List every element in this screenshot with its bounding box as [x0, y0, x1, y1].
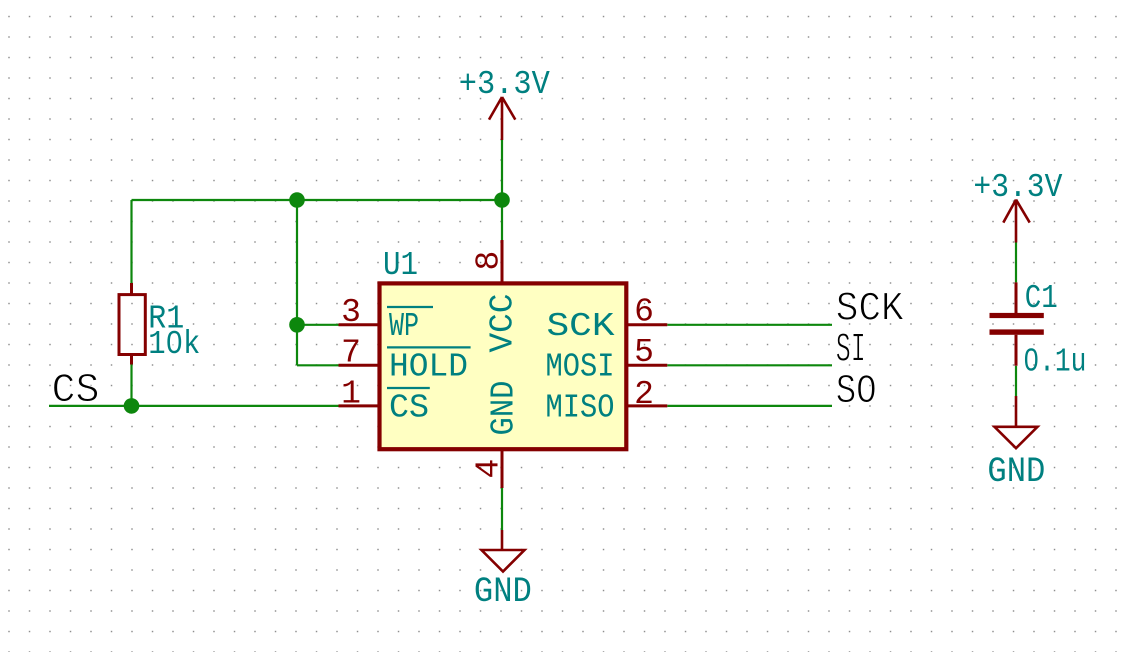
svg-text:0.1u: 0.1u	[1023, 344, 1086, 382]
pin name HOLD with overline	[387, 347, 471, 385]
svg-text:4: 4	[471, 459, 508, 479]
svg-text:SCK: SCK	[547, 308, 615, 345]
wire from resistor R1 bottom to CS net	[130, 365, 132, 406]
svg-text:3: 3	[341, 294, 361, 331]
junction at pin 3 branch	[289, 317, 305, 333]
svg-text:GND: GND	[474, 572, 532, 612]
resistor R1	[119, 283, 145, 365]
svg-text:GND: GND	[987, 452, 1045, 492]
wire vertical from top rail to pin 7 row	[296, 200, 298, 365]
svg-text:SO: SO	[836, 369, 877, 415]
svg-text:MISO: MISO	[546, 390, 615, 427]
svg-text:GND: GND	[486, 381, 523, 436]
svg-text:HOLD: HOLD	[389, 349, 468, 386]
wire from +3.3V to pin 8	[501, 140, 503, 240]
ground (below U1)	[474, 530, 532, 612]
svg-text:CS: CS	[389, 390, 429, 427]
power +3.3V (right, above C1)	[973, 169, 1062, 243]
svg-text:10k: 10k	[148, 326, 200, 364]
wire from capacitor C1 bottom to GND	[1015, 366, 1017, 396]
pin 1 (CS) stub	[339, 404, 380, 407]
IC U1 body	[380, 283, 627, 449]
pin name CS with overline	[387, 388, 430, 427]
svg-text:CS: CS	[52, 368, 100, 414]
pin 3 (WP) stub	[339, 323, 380, 326]
svg-text:MOSI: MOSI	[546, 349, 615, 386]
pin 5 (MOSI) stub	[626, 364, 667, 367]
junction at top rail / R1-pin3 column	[289, 192, 305, 208]
svg-text:8: 8	[471, 251, 508, 271]
pin 4 (GND) stub	[501, 449, 504, 488]
pin 6 (SCK) stub	[626, 323, 667, 326]
wire CS net horizontal to pin 1	[49, 405, 339, 407]
svg-text:+3.3V: +3.3V	[973, 169, 1062, 206]
svg-text:SCK: SCK	[836, 287, 904, 333]
svg-text:7: 7	[341, 334, 361, 371]
svg-text:+3.3V: +3.3V	[459, 66, 550, 103]
svg-text:VCC: VCC	[485, 294, 522, 353]
junction at CS / R1 bottom	[124, 398, 140, 414]
svg-text:SI: SI	[836, 328, 866, 374]
wire from top rail down to resistor R1 top	[130, 200, 132, 283]
wire top horizontal from R1 column to VCC column	[132, 199, 503, 201]
pin name WP with overline	[387, 307, 433, 345]
svg-text:2: 2	[634, 376, 654, 413]
power +3.3V (top)	[459, 66, 550, 140]
svg-text:C1: C1	[1025, 280, 1058, 318]
wire SCK from pin 6	[667, 324, 832, 326]
wire from pin 4 to GND	[501, 488, 503, 530]
junction at top rail / VCC column	[494, 192, 510, 208]
wire to pin 3	[297, 324, 339, 326]
wire from +3.3V to capacitor C1 top	[1015, 243, 1017, 283]
wire SI from pin 5	[667, 364, 832, 366]
wire to pin 7	[297, 364, 339, 366]
svg-text:U1: U1	[383, 247, 418, 284]
pin 8 (VCC) stub	[501, 240, 504, 283]
svg-text:WP: WP	[389, 308, 419, 345]
ground (below C1)	[987, 396, 1045, 492]
pin 2 (MISO) stub	[626, 404, 667, 407]
svg-text:5: 5	[634, 334, 654, 371]
capacitor C1	[990, 282, 1044, 365]
wire SO from pin 2	[667, 405, 832, 407]
svg-text:1: 1	[341, 376, 361, 413]
pin 7 (HOLD) stub	[339, 364, 380, 367]
svg-text:6: 6	[634, 294, 654, 331]
